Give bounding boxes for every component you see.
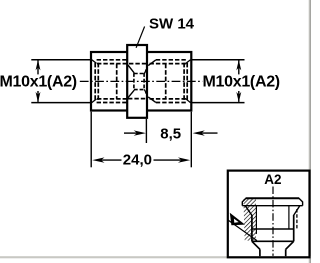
right thread crest hidden line bottom [156, 102, 187, 104]
left M10 dimension arrow down [36, 91, 41, 102]
gray table rule bottom [0, 256, 311, 258]
right bore hidden line bottom [150, 98, 187, 100]
8,5 extension line left (from hex corner) [145, 119, 147, 143]
left thread crest hidden line bottom [97, 102, 127, 104]
svg-text:A2: A2 [264, 172, 281, 187]
right bore hidden line top [150, 63, 187, 65]
right cone diagonal bottom [148, 97, 156, 103]
center axis line (dash-dot) [80, 80, 203, 82]
body outline (24.0 long) [91, 52, 191, 111]
SW14 leader line [136, 27, 145, 48]
right M10 extension line bottom [192, 102, 245, 104]
svg-text:M10x1(A2): M10x1(A2) [0, 74, 77, 91]
svg-text:SW 14: SW 14 [149, 15, 195, 32]
right thread depth hidden vertical [165, 64, 167, 99]
8,5 arrow right [193, 130, 218, 135]
right M10 extension line top [192, 59, 245, 61]
detail bottom taper left [252, 241, 260, 249]
detail neck left [259, 249, 261, 256]
left thread runout hidden vertical 2 [97, 63, 99, 102]
detail flange side left [241, 202, 243, 206]
left M10 extension line bottom [31, 102, 90, 104]
detail internal step line [252, 228, 294, 230]
svg-text:8,5: 8,5 [160, 126, 181, 143]
left bore hidden line bottom [97, 98, 127, 100]
detail taper left [245, 206, 252, 216]
gray table rule right edge [309, 0, 310, 263]
detail flange top edge [246, 197, 300, 199]
right thread chamfer top [186, 60, 191, 64]
left thread runout hidden vertical 1 [94, 63, 96, 102]
detail flange chamfer left [242, 198, 246, 202]
detail arrow white notch [234, 219, 239, 223]
detail cylinder bottom edge [252, 240, 294, 242]
left drill cone diagonal bottom [128, 90, 134, 98]
left thread depth hidden vertical [116, 64, 118, 99]
detail bore line left [255, 206, 257, 234]
left thread chamfer bottom [92, 99, 97, 103]
detail hidden thread line right [296, 209, 298, 229]
right M10 dimension arrow down [236, 91, 241, 102]
detail taper right [294, 206, 300, 216]
24,0 extension line right [190, 112, 192, 168]
left M10 dimension arrow up [36, 60, 41, 75]
left thread crest hidden line top [97, 59, 127, 61]
detail hatch section wall [243, 199, 256, 241]
right thread chamfer bottom [186, 99, 191, 103]
svg-text:M10x1(A2): M10x1(A2) [203, 74, 280, 91]
detail bottom taper right [286, 241, 294, 249]
right seat arc bottom [144, 90, 146, 94]
8,5 arrow left [124, 130, 146, 135]
center small bore hidden rectangle [134, 73, 144, 90]
detail flange chamfer right [299, 198, 303, 202]
24,0 arrow left [92, 157, 121, 162]
right seat arc top [144, 69, 146, 73]
svg-text:24,0: 24,0 [123, 151, 152, 168]
right cone diagonal top [148, 60, 156, 66]
right M10 dimension arrow up [236, 60, 241, 75]
left drill cone diagonal top [128, 65, 134, 73]
right thread runout hidden vertical 1 [183, 63, 185, 102]
hex SW14 band [127, 45, 147, 118]
detail box A2 [228, 171, 310, 258]
detail flange side right [302, 202, 304, 206]
detail arrow black [230, 213, 245, 225]
detail wall left [251, 215, 253, 241]
detail flange bottom edge [242, 205, 302, 207]
hex interior bore hidden line bottom [128, 98, 146, 100]
detail wall right [293, 215, 295, 241]
24,0 arrow right [154, 157, 191, 162]
left thread chamfer top [92, 60, 97, 64]
left bore hidden line top (runs through hex) [97, 63, 146, 65]
detail neck right [285, 249, 287, 256]
24,0 extension line left [90, 112, 92, 168]
right thread crest hidden line top [156, 59, 187, 61]
detail center axis (dash-dot vertical) [272, 187, 274, 256]
detail leader line [228, 220, 257, 241]
detail bore line right [288, 206, 290, 229]
left M10 extension line top [31, 59, 90, 61]
right thread runout hidden vertical 2 [186, 63, 188, 102]
